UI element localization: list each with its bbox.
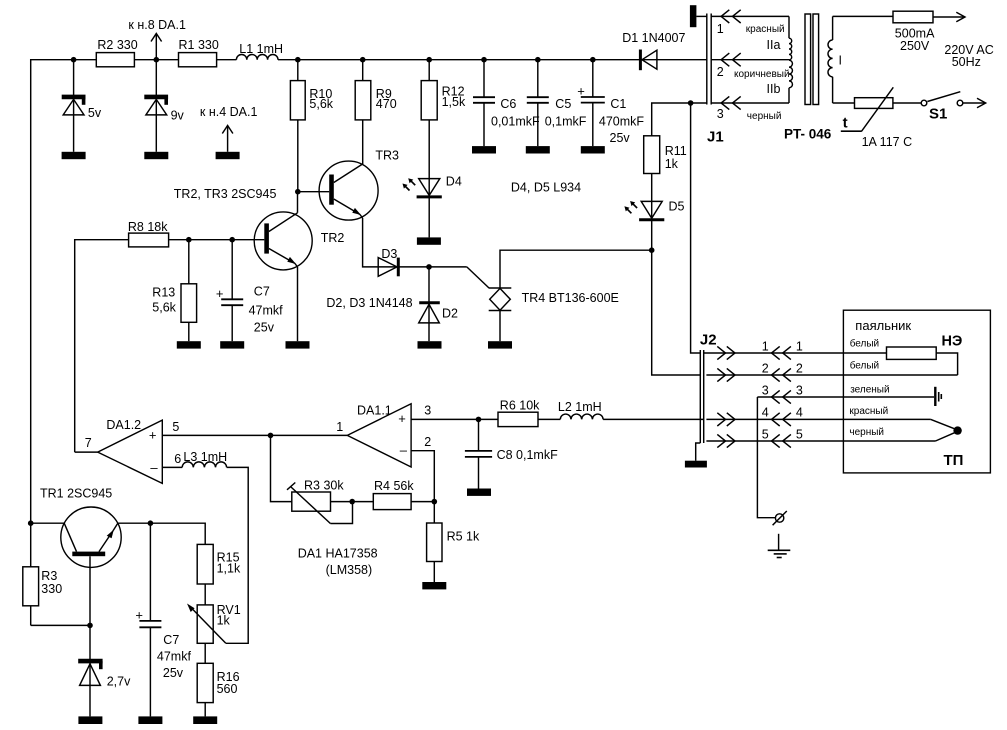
trimmer RV1 1k (187, 603, 241, 664)
op-amp DA1.2 (98, 418, 163, 483)
thermal fuse t 1A 117 C (841, 87, 912, 149)
svg-text:R5 1k: R5 1k (447, 530, 480, 544)
svg-text:2,7v: 2,7v (107, 675, 131, 689)
wire J2 body to ground (696, 443, 701, 461)
svg-text:0,1mkF: 0,1mkF (545, 114, 587, 128)
svg-text:L1 1mH: L1 1mH (239, 42, 283, 56)
capacitor C7 bottom 47mkf (135, 523, 191, 716)
node rail-5v (71, 57, 77, 63)
transformer secondary winding IIa (767, 16, 792, 59)
svg-text:1k: 1k (665, 157, 679, 171)
ground of D4 (417, 237, 441, 244)
ground of D2 (418, 341, 442, 348)
svg-text:паяльник: паяльник (855, 318, 911, 333)
svg-text:5: 5 (172, 420, 179, 434)
connector J1 body (707, 14, 724, 146)
svg-text:D3: D3 (381, 247, 397, 261)
wire TR3 emitter to D3 (363, 218, 429, 267)
svg-text:TR4 BT136-600E: TR4 BT136-600E (522, 291, 619, 305)
svg-text:25v: 25v (254, 320, 275, 334)
wire rail R1 to L1 (217, 59, 237, 61)
svg-text:1,5k: 1,5k (442, 95, 466, 109)
svg-text:0,01mkF: 0,01mkF (491, 114, 540, 128)
svg-text:2: 2 (717, 65, 724, 79)
ground of TR2 (286, 341, 310, 348)
svg-text:47mkf: 47mkf (157, 650, 192, 664)
wire S1 to line arrow (963, 98, 986, 108)
ground of 9v (144, 152, 168, 159)
wire triac top to D5 junction (500, 250, 652, 288)
wire NE loop (850, 353, 958, 375)
wire TR2 emitter to ground (297, 267, 299, 341)
wire TR2 collector up (297, 192, 299, 213)
node rail-R12 (426, 57, 432, 63)
wire C1 node to R11 and J1 pin3 (652, 103, 707, 136)
svg-text:C7: C7 (163, 633, 179, 647)
transformer primary winding I (828, 16, 842, 103)
svg-text:–: – (400, 443, 408, 458)
wire primary bottom to thermal fuse (833, 102, 855, 104)
svg-text:к н.8 DA.1: к н.8 DA.1 (128, 18, 186, 32)
svg-text:PT- 046: PT- 046 (784, 127, 832, 142)
ground of triac (488, 341, 512, 348)
svg-text:1: 1 (762, 340, 769, 354)
svg-text:S1: S1 (929, 106, 947, 123)
zener diode 5v (62, 60, 102, 152)
J2 pin 4 contacts (717, 406, 803, 427)
wire DA1.1 pin3 to R6 (411, 404, 498, 420)
svg-text:R3 30k: R3 30k (304, 479, 344, 493)
J2 row2 wire (706, 374, 957, 376)
capacitor C6 0,01mkF (473, 60, 540, 146)
svg-text:TR2: TR2 (321, 231, 345, 245)
ground of C6 (472, 146, 496, 153)
node D3 D2 junction (426, 264, 432, 270)
svg-text:5,6k: 5,6k (309, 97, 333, 111)
svg-text:белый: белый (850, 338, 879, 350)
svg-text:330: 330 (41, 582, 62, 596)
diode D1 1N4007 (622, 31, 685, 70)
svg-text:2: 2 (796, 362, 803, 376)
svg-text:TR3: TR3 (375, 148, 399, 162)
ground of R16 (193, 716, 217, 724)
ground of C7 (220, 341, 244, 348)
wire TR1 emitter to R15 (118, 523, 205, 544)
LED D4 (417, 175, 462, 197)
svg-text:зеленый: зеленый (850, 384, 889, 395)
test point circle (773, 511, 787, 525)
resistor R11 1k (644, 136, 687, 250)
svg-text:C5: C5 (555, 97, 571, 111)
svg-text:5: 5 (762, 428, 769, 442)
ground of R5 (422, 582, 446, 589)
transformer secondary winding IIb (767, 60, 793, 103)
resistor R16 560 (197, 663, 239, 716)
svg-text:47mkf: 47mkf (249, 303, 284, 317)
wire R8 to TR2 base (169, 239, 265, 241)
wire left rail to TR1 collector (31, 522, 64, 524)
transistor TR2 (254, 212, 344, 270)
transistor TR3 (298, 148, 399, 220)
inductor L1 1mH (236, 42, 283, 60)
node rail-C6 (481, 57, 487, 63)
ground of 5v (62, 152, 86, 159)
svg-text:D1 1N4007: D1 1N4007 (622, 31, 685, 45)
svg-text:3: 3 (796, 384, 803, 398)
svg-text:7: 7 (85, 436, 92, 450)
wire rail R2 to R1 (134, 59, 178, 61)
wire DA1.2 pin5 to DA1.1 output (162, 420, 347, 436)
J2 row4 wire (706, 418, 930, 420)
capacitor C1 470mkF 25v (577, 60, 644, 146)
wire L2 to J2 pin4 (603, 418, 704, 420)
svg-text:3: 3 (424, 404, 431, 418)
node R13 top (186, 237, 192, 243)
arrow to pin8 DA.1 (128, 18, 186, 60)
J2 row3 wire (757, 396, 934, 398)
J2 pin 3 contacts (762, 384, 803, 404)
J2 row1 wire (704, 352, 887, 354)
resistor R6 10k (498, 399, 540, 427)
node C8 junction (476, 417, 482, 423)
svg-text:6: 6 (174, 452, 181, 466)
J2 pin 5 contacts (717, 428, 803, 448)
wire J1 pin3 junction to J2 pin1 (691, 103, 701, 353)
J1 pin 2 contacts (717, 53, 741, 79)
svg-text:черный: черный (747, 111, 782, 122)
wire R8 left to DA1.2 output (75, 240, 129, 452)
svg-text:IIb: IIb (767, 82, 781, 96)
svg-text:D2: D2 (442, 306, 458, 320)
resistor R5 1k (427, 502, 480, 582)
fuse 500mA 250V (893, 11, 935, 53)
ground of C1 (581, 146, 605, 153)
J2 pin 2 contacts (717, 362, 803, 382)
svg-text:TR1 2SC945: TR1 2SC945 (40, 487, 112, 501)
resistor R13 5,6k (152, 240, 196, 342)
svg-text:L3 1mH: L3 1mH (183, 450, 227, 464)
svg-text:+: + (135, 607, 143, 622)
wire R6 to L2 (538, 418, 560, 420)
LED D4 emission arrows (403, 178, 416, 190)
wire primary top to fuse (833, 15, 893, 17)
svg-text:DA1.2: DA1.2 (106, 418, 141, 432)
resistor R8 18k (128, 220, 169, 247)
svg-text:TR2, TR3 2SC945: TR2, TR3 2SC945 (174, 187, 277, 201)
J2 pin 1 contacts (717, 340, 803, 360)
node rail-9v (154, 57, 160, 63)
wire J1 pin1 to winding (711, 16, 789, 35)
svg-text:470mkF: 470mkF (599, 114, 645, 128)
svg-text:IIa: IIa (767, 38, 781, 52)
svg-text:1k: 1k (217, 614, 231, 628)
node TR1 base junction (87, 623, 93, 629)
svg-text:560: 560 (217, 682, 238, 696)
resistor R9 470 (355, 60, 397, 164)
J1 pin 1 contacts (717, 10, 741, 36)
svg-text:–: – (150, 460, 158, 475)
svg-text:25v: 25v (163, 666, 184, 680)
capacitor C7 47mkf 25v (216, 240, 283, 342)
zener diode 9v (144, 60, 184, 152)
svg-text:(LM358): (LM358) (326, 563, 373, 577)
svg-text:белый: белый (850, 359, 879, 371)
svg-text:+: + (216, 286, 224, 301)
svg-text:R3: R3 (41, 569, 57, 583)
zener diode 2,7v (78, 661, 131, 688)
svg-text:1: 1 (796, 340, 803, 354)
svg-text:R13: R13 (152, 286, 175, 300)
svg-text:C1: C1 (610, 97, 626, 111)
earth ground symbol (768, 534, 791, 558)
wire R3 330 to TR1 base (31, 624, 90, 626)
soldering iron box (843, 310, 990, 473)
potentiometer R3 30k (287, 479, 344, 524)
svg-text:2: 2 (762, 362, 769, 376)
J1 pin 3 contacts (717, 96, 741, 121)
resistor R4 56k (373, 479, 414, 510)
op-amp DA1.1 (336, 404, 411, 467)
ground of C5 (526, 146, 550, 153)
ground of C7 bottom (138, 716, 162, 724)
wire triac bottom to ground (499, 311, 501, 342)
resistor R1 330 (179, 38, 219, 67)
wire D5 junction to J2 pin2 (652, 250, 701, 375)
wire TR1 base down (89, 556, 91, 716)
node J1 pin3 junction (688, 100, 694, 106)
node TR2 collector TR3 base (295, 189, 301, 195)
wire L3 to RV1 wiper feedback (226, 467, 248, 643)
node pin5 R3 junction (268, 433, 274, 439)
node C7 top (229, 237, 235, 243)
node left rail TR1 junction (28, 520, 34, 526)
wire D3 junction to triac gate (429, 267, 489, 288)
svg-text:+: + (398, 411, 406, 426)
switch S1 (893, 92, 963, 123)
capacitor C5 0,1mkF (527, 60, 587, 146)
J2 row5 wire (706, 440, 935, 442)
capacitor C8 0,1mkF (465, 419, 558, 488)
svg-text:коричневый: коричневый (734, 69, 790, 80)
node rail-R10 (295, 57, 301, 63)
svg-text:R11: R11 (665, 144, 687, 158)
svg-text:t: t (843, 115, 848, 132)
svg-text:+: + (577, 83, 585, 98)
ground of pin4 arrow (216, 152, 240, 159)
wire J1 pin2 to winding (711, 60, 789, 80)
svg-text:красный: красный (849, 406, 888, 417)
svg-text:C6: C6 (500, 97, 516, 111)
node D5 triac junction (649, 247, 655, 253)
diode D3 (378, 247, 398, 277)
node rail-C1 (590, 57, 596, 63)
wire left rail to R3 330 (30, 523, 32, 567)
thermocouple TP (849, 406, 963, 469)
svg-text:R4 56k: R4 56k (374, 479, 414, 493)
svg-text:ТП: ТП (944, 452, 964, 469)
svg-text:3: 3 (762, 384, 769, 398)
terminal bar J1 pin1 (690, 5, 707, 27)
svg-text:D2, D3 1N4148: D2, D3 1N4148 (326, 296, 412, 310)
svg-text:R1 330: R1 330 (179, 38, 219, 52)
svg-text:+: + (149, 428, 157, 443)
svg-text:R6 10k: R6 10k (500, 399, 540, 413)
wire pin5 junction to R3 30k (271, 435, 292, 501)
wire R3 30k to R4 (331, 501, 374, 503)
svg-text:J2: J2 (700, 332, 717, 349)
wire DA1.1 pin2 down (411, 435, 434, 501)
diode D2 (419, 267, 458, 341)
node rail-R9 (360, 57, 366, 63)
node C7 bottom junction (148, 520, 154, 526)
svg-text:DA1.1: DA1.1 (357, 404, 392, 418)
svg-text:D4, D5 L934: D4, D5 L934 (511, 181, 581, 195)
svg-text:D4: D4 (446, 175, 462, 189)
ground of J2 (685, 461, 707, 468)
node R5 top junction (432, 499, 438, 505)
svg-text:I: I (839, 54, 842, 68)
svg-text:C7: C7 (254, 284, 270, 298)
node R4 left junction (349, 499, 355, 505)
svg-text:R2 330: R2 330 (97, 38, 137, 52)
transistor TR1 2SC945 (40, 487, 121, 568)
svg-text:9v: 9v (171, 108, 185, 122)
LED D5 emission arrows (624, 201, 637, 213)
svg-text:черный: черный (849, 427, 884, 438)
triac TR4 BT136-600E (489, 288, 619, 311)
wire green to earth (850, 384, 941, 406)
svg-text:1,1k: 1,1k (217, 562, 241, 576)
label DA1 type (298, 547, 378, 578)
svg-text:C8 0,1mkF: C8 0,1mkF (497, 448, 558, 462)
heating element NE (850, 334, 963, 360)
arrow to pin4 DA.1 (200, 105, 258, 152)
inductor L3 1mH (182, 450, 227, 467)
wire R4 to R5 junction (411, 501, 434, 503)
wire J2 pin3 to test point (757, 397, 775, 518)
wire DA1.2 pin6 to L3 (162, 452, 182, 468)
resistor R3 330 (23, 567, 62, 626)
ground of 2,7v (78, 716, 102, 724)
svg-text:DA1 HA17358: DA1 HA17358 (298, 547, 378, 561)
ground of R13 (177, 341, 201, 348)
wire DA1.2 output pin 7 (75, 436, 98, 452)
svg-text:5v: 5v (88, 106, 102, 120)
svg-text:красный: красный (746, 24, 785, 35)
resistor R12 1,5k (421, 60, 466, 238)
wire J1 pin3 to winding (711, 103, 789, 122)
svg-text:1: 1 (717, 22, 724, 36)
wire R3 30k wiper to R4 junction (330, 502, 352, 524)
svg-text:470: 470 (376, 97, 397, 111)
svg-text:1: 1 (336, 420, 343, 434)
wire top rail left segment (31, 60, 97, 524)
svg-text:4: 4 (762, 406, 769, 420)
svg-text:НЭ: НЭ (942, 334, 963, 350)
LED D5 (639, 200, 684, 220)
node rail-C5 (535, 57, 541, 63)
svg-text:25v: 25v (610, 131, 631, 145)
inductor L2 1mH (558, 400, 603, 419)
ground of C8 (467, 489, 491, 496)
svg-text:250V: 250V (900, 39, 930, 53)
svg-text:2: 2 (424, 435, 431, 449)
svg-text:J1: J1 (707, 129, 724, 146)
wire rail L1 to D1 (278, 59, 707, 61)
svg-text:D5: D5 (669, 200, 685, 214)
svg-text:L2 1mH: L2 1mH (558, 400, 602, 414)
resistor R10 5,6k (290, 60, 333, 192)
svg-text:50Hz: 50Hz (952, 55, 981, 69)
svg-text:5: 5 (796, 428, 803, 442)
transformer core (784, 14, 832, 142)
svg-text:к н.4 DA.1: к н.4 DA.1 (200, 105, 258, 119)
svg-text:4: 4 (796, 406, 803, 420)
svg-text:1A 117 C: 1A 117 C (862, 135, 913, 149)
svg-text:5,6k: 5,6k (152, 301, 176, 315)
svg-text:3: 3 (717, 107, 724, 121)
connector J2 body (700, 332, 717, 444)
wire fuse to line arrow (933, 12, 994, 69)
resistor R15 1,1k (197, 544, 241, 605)
resistor R2 330 (96, 38, 137, 67)
svg-text:R8 18k: R8 18k (128, 220, 168, 234)
